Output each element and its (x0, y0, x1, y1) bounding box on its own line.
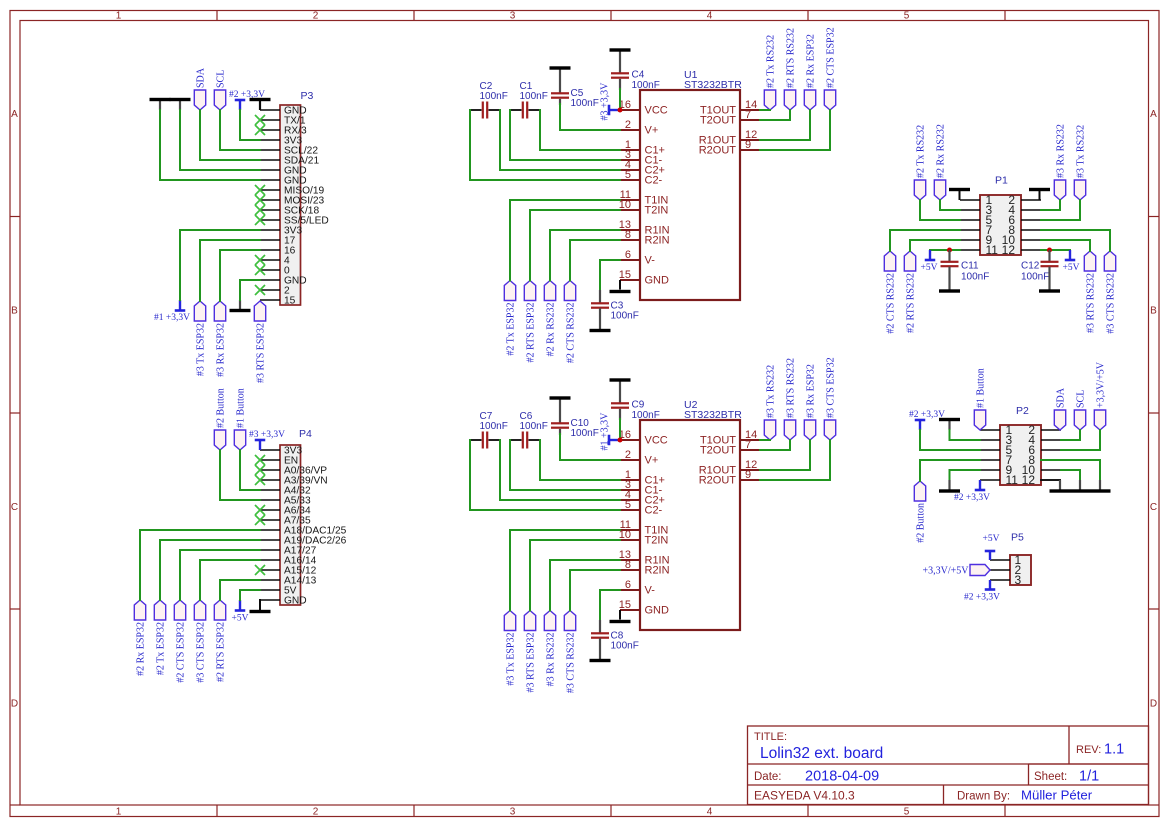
wire P3 pin8 GND (160, 110, 260, 180)
capacitor C8 100nF (591, 620, 639, 652)
svg-text:Sheet:: Sheet: (1034, 771, 1067, 783)
svg-text:12: 12 (1002, 243, 1016, 257)
svg-text:R2OUT: R2OUT (699, 475, 737, 487)
ground symbol at P3 pin 1 (250, 98, 271, 110)
svg-text:100nF: 100nF (571, 98, 599, 109)
P2 pin 2 (1028, 423, 1061, 437)
U2 pin 14 T1OUT (700, 429, 760, 447)
svg-text:V-: V- (645, 255, 656, 267)
svg-text:15: 15 (284, 296, 296, 307)
svg-text:5: 5 (904, 807, 910, 818)
svg-text:P4: P4 (299, 428, 312, 440)
P5 pin 2 (990, 563, 1022, 577)
svg-text:9: 9 (745, 139, 751, 151)
net port SDA at P2 (1054, 387, 1066, 430)
svg-text:#2 Tx RS232: #2 Tx RS232 (915, 125, 926, 178)
svg-text:#1 Button: #1 Button (975, 368, 986, 408)
P3 pin 12 SS/5/LED (260, 216, 329, 227)
ground symbol below C11 (939, 267, 960, 293)
P3 pin 12 no-connect X (255, 215, 265, 225)
wire #2 CTS ESP32 to U1 (760, 110, 830, 150)
net port #2 Rx ESP32 at P4 (134, 600, 146, 676)
U1 pin 11 T1IN (620, 189, 669, 207)
P3 pin 18 GND (260, 276, 307, 287)
P4 pin 8 no-connect X (255, 515, 265, 525)
svg-text:GND: GND (645, 605, 670, 617)
net port #2 Tx ESP32 at P4 (154, 600, 166, 675)
wire #3 CTS RS232 to U2 (570, 570, 620, 611)
svg-text:#3 Rx RS232: #3 Rx RS232 (545, 633, 556, 687)
svg-text:#1 Button: #1 Button (235, 388, 246, 428)
P2 pin 1 (980, 423, 1013, 437)
svg-text:8: 8 (625, 559, 631, 571)
wire #1 Button to P4 pin5 A4/32 (240, 450, 260, 490)
U2 pin 1 C1+ (620, 469, 665, 487)
U1 pin 4 C2+ (620, 159, 665, 177)
U1 pin 15 GND (619, 269, 669, 287)
frame row labels (11, 109, 1157, 710)
wire #2 Tx ESP32 to P4 (160, 540, 260, 600)
svg-text:7: 7 (745, 109, 751, 121)
svg-text:#3 Tx ESP32: #3 Tx ESP32 (195, 323, 206, 376)
svg-text:V-: V- (645, 585, 656, 597)
net port #3 RTS ESP32 at P3 (254, 301, 266, 383)
svg-text:2: 2 (313, 807, 319, 818)
svg-text:3: 3 (510, 11, 516, 22)
U2 pin 10 T2IN (619, 529, 669, 547)
P4 pin 13 A15/12 (260, 566, 317, 577)
ground symbol at P3 pin 18 (230, 300, 251, 312)
ground symbol at P1 pin 1 (949, 188, 970, 200)
P1 pin 12 (1002, 243, 1041, 257)
svg-text:100nF: 100nF (480, 91, 508, 102)
svg-text:P2: P2 (1016, 405, 1029, 417)
svg-text:15: 15 (619, 599, 631, 611)
svg-text:#3 Rx ESP32: #3 Rx ESP32 (805, 364, 816, 418)
U2 pin 15 GND (619, 599, 669, 617)
P4 pin 5 A4/32 (260, 486, 311, 497)
wire P3 pin18 GND (240, 280, 260, 300)
connector P3 (280, 105, 301, 305)
net port #2 CTS ESP32 at U1 (824, 27, 836, 110)
U1 pin 12 R1OUT (699, 129, 760, 147)
capacitor C12 100nF (1021, 250, 1059, 283)
P2 pin 12 (1022, 473, 1061, 487)
P1 pin 10 (1002, 233, 1041, 247)
P3 pin 7 GND (260, 166, 307, 177)
svg-text:#3 CTS ESP32: #3 CTS ESP32 (195, 622, 206, 683)
wire #2 Rx RS232 to U1 (550, 230, 620, 281)
power flag +5V at P5 pin 1 (983, 534, 1000, 560)
svg-text:SDA: SDA (195, 67, 206, 88)
P4 pin 13 no-connect X (255, 565, 265, 575)
svg-text:#3 CTS RS232: #3 CTS RS232 (1105, 273, 1116, 334)
ground symbol above C10 (550, 396, 571, 423)
svg-text:#3 Tx ESP32: #3 Tx ESP32 (505, 633, 516, 686)
wire SCL to P3 pin5 (220, 110, 260, 150)
wire #3 CTS ESP32 to U2 (760, 440, 830, 480)
svg-text:D: D (1150, 699, 1157, 710)
U2 pin 6 V- (620, 579, 655, 597)
svg-text:P5: P5 (1011, 532, 1024, 544)
net port #2 CTS ESP32 at P4 (174, 600, 186, 683)
title block (748, 726, 1149, 805)
svg-text:VCC: VCC (645, 435, 668, 447)
U2 pin 16 VCC (619, 429, 668, 447)
P3 pin 10 MOSI/23 (260, 196, 325, 207)
svg-text:#2 RTS ESP32: #2 RTS ESP32 (215, 622, 226, 682)
title block text Lolin32 ext. board (760, 745, 883, 762)
P5 pin 3 (990, 573, 1022, 587)
wire #2 Tx RS232 to U1 (760, 109, 770, 111)
wire C4 to VCC pin (619, 79, 621, 110)
wire #3 Tx ESP32 to P3 pin14 (200, 240, 260, 301)
net port SCL at P3 (214, 70, 226, 110)
svg-text:#3 Rx ESP32: #3 Rx ESP32 (215, 323, 226, 377)
ground symbol above C9 (610, 378, 631, 403)
P3 pin 19 no-connect X (255, 285, 265, 295)
svg-text:5: 5 (625, 499, 631, 511)
net port #3 RTS RS232 at P1 (1084, 251, 1096, 333)
wire +3,3V/+5V to P2 pin 6 (1061, 430, 1100, 450)
svg-text:+3,3V/+5V: +3,3V/+5V (922, 566, 969, 577)
P1 pin 11 (960, 243, 998, 257)
op-amp U1 ST3232BTR box (640, 90, 740, 300)
P4 pin 7 A6/34 (260, 506, 311, 517)
P1 pin 2 (1008, 193, 1041, 207)
op-amp U2 ST3232BTR box (640, 420, 740, 630)
P3 pin 9 no-connect X (255, 185, 265, 195)
U1 pin 13 R1IN (619, 219, 670, 237)
svg-text:7: 7 (745, 439, 751, 451)
svg-text:+5V: +5V (1063, 263, 1080, 273)
junction at U2 VCC (618, 438, 623, 443)
capacitor C2 100nF (470, 81, 508, 119)
P1 pin 6 (1008, 213, 1041, 227)
P3 pin 19 2 (260, 286, 290, 297)
svg-text:#3 CTS RS232: #3 CTS RS232 (565, 633, 576, 694)
svg-text:#2 RTS RS232: #2 RTS RS232 (905, 273, 916, 333)
svg-text:100nF: 100nF (632, 80, 660, 91)
svg-text:#3 +3,3V: #3 +3,3V (249, 430, 285, 440)
P4 pin 14 A14/13 (260, 576, 317, 587)
svg-text:100nF: 100nF (961, 272, 989, 283)
P3 pin 17 0 (260, 266, 290, 277)
P4 pin 15 5V (260, 586, 297, 597)
P4 pin 4 A3/39/VN (260, 476, 328, 487)
P3 pin 16 4 (260, 256, 290, 267)
title block text TITLE: (754, 731, 787, 743)
net port #2 RTS RS232 at P1 (904, 251, 916, 333)
svg-text:15: 15 (619, 269, 631, 281)
wire +5V to P4 pin15 (240, 590, 260, 600)
svg-text:#3 Tx RS232: #3 Tx RS232 (1075, 125, 1086, 178)
wire P1 pin 12 +5V rail (1041, 249, 1070, 251)
wire C1 right to C1+ pin (540, 110, 620, 150)
svg-text:+5V: +5V (983, 534, 1000, 544)
P4 pin 4 no-connect X (255, 475, 265, 485)
svg-text:1.1: 1.1 (1104, 742, 1124, 758)
P3 pin 20 15 (260, 296, 296, 307)
svg-text:D: D (11, 699, 18, 710)
svg-text:R2IN: R2IN (645, 235, 670, 247)
P2 pin 3 (980, 433, 1013, 447)
power flag +5V at P1 pin 11 (921, 250, 938, 273)
power flag #2 +3,3V at P2 top (909, 410, 945, 430)
P5 pin 1 (990, 553, 1022, 567)
power flag #3 +3,3V at U1 VCC (600, 82, 621, 121)
wire #3 Tx RS232 to U2 (760, 439, 770, 441)
U2 pin 13 R1IN (619, 549, 670, 567)
U2 pin 3 C1- (620, 479, 663, 497)
svg-text:#2 CTS ESP32: #2 CTS ESP32 (825, 27, 836, 88)
svg-text:5: 5 (625, 169, 631, 181)
P3 pin 6 SDA/21 (260, 156, 319, 167)
svg-text:#3 RTS ESP32: #3 RTS ESP32 (255, 323, 266, 383)
connector P4 (280, 445, 301, 605)
P3 pin 3 RX/3 (260, 126, 307, 137)
title block text Sheet: 1/1 (1034, 769, 1099, 785)
wire #3 Tx ESP32 to U2 (510, 530, 620, 611)
svg-text:2: 2 (625, 119, 631, 131)
net port #3 Tx RS232 at U2 (764, 365, 776, 440)
wire C2 right to C2+ pin (500, 110, 620, 170)
wire P2 pin 12 GND (1041, 479, 1060, 481)
P3 pin 13 3V3 (260, 226, 302, 237)
P4 pin 12 A16/14 (260, 556, 317, 567)
U2 pin 12 R1OUT (699, 459, 760, 477)
connector P2 (1000, 425, 1041, 485)
svg-text:#2 +3,3V: #2 +3,3V (954, 493, 990, 503)
svg-text:1: 1 (116, 11, 122, 22)
wire #2 Rx ESP32 to U1 (760, 110, 810, 140)
svg-text:2: 2 (313, 11, 319, 22)
U2 refdes label (684, 399, 698, 411)
svg-text:C2-: C2- (645, 175, 663, 187)
svg-text:1/1: 1/1 (1079, 769, 1099, 785)
U1 pin 7 T2OUT (700, 109, 760, 127)
wire #2 RTS RS232 to U1 (760, 110, 790, 120)
junction at C12 (1047, 248, 1052, 253)
net port #2 Rx ESP32 at U1 (804, 34, 816, 110)
svg-text:ST3232BTR: ST3232BTR (684, 79, 742, 91)
U1 pin 16 VCC (619, 99, 668, 117)
capacitor C4 100nF (611, 70, 660, 92)
U1 pin 10 T2IN (619, 199, 669, 217)
P3 pin 14 17 (260, 236, 296, 247)
net port #2 Tx RS232 at U1 (764, 35, 776, 110)
P1 pin 7 (960, 223, 993, 237)
svg-text:Date:: Date: (754, 771, 782, 783)
wire #3 Rx RS232 to P1 pin 4 (1041, 200, 1060, 210)
svg-text:#2 +3,3V: #2 +3,3V (964, 593, 1000, 603)
svg-text:Lolin32 ext. board: Lolin32 ext. board (760, 745, 883, 762)
svg-text:100nF: 100nF (611, 311, 639, 322)
svg-text:100nF: 100nF (520, 91, 548, 102)
net port #2 CTS RS232 at U1 (564, 281, 576, 364)
svg-text:100nF: 100nF (571, 428, 599, 439)
net port #2 RTS ESP32 at U1 (524, 281, 536, 363)
title block text Date: 2018-04-09 (754, 769, 879, 785)
svg-text:TITLE:: TITLE: (754, 731, 787, 743)
svg-text:#2 Rx ESP32: #2 Rx ESP32 (135, 622, 146, 676)
svg-text:T2IN: T2IN (645, 205, 669, 217)
wire #2 RTS RS232 to P1 pin 9 (910, 240, 960, 251)
svg-text:B: B (1150, 306, 1157, 317)
svg-text:C4: C4 (632, 70, 645, 81)
wire #2 Tx RS232 to P1 pin 5 (920, 200, 960, 220)
svg-text:VCC: VCC (645, 105, 668, 117)
capacitor C6 100nF (510, 411, 548, 449)
svg-text:11: 11 (1006, 473, 1019, 487)
net port SCL at P2 (1074, 390, 1086, 430)
wire #2 +3,3V to P3 pin4 3V3 (240, 110, 260, 140)
svg-text:EASYEDA V4.10.3: EASYEDA V4.10.3 (754, 789, 855, 803)
P4 pin 11 A17/27 (260, 546, 317, 557)
svg-text:#3 Rx RS232: #3 Rx RS232 (1055, 124, 1066, 178)
P4 pin 10 A19/DAC2/26 (260, 536, 347, 547)
U1 pin 8 R2IN (620, 229, 670, 247)
net port #3 RTS ESP32 at U2 (524, 611, 536, 693)
svg-text:A: A (11, 109, 18, 120)
svg-text:V+: V+ (645, 455, 659, 467)
power flag #1 +3,3V at U2 VCC (600, 412, 621, 451)
svg-text:4: 4 (707, 11, 713, 22)
net port #2 Tx ESP32 at U1 (504, 281, 516, 356)
svg-text:#2 CTS RS232: #2 CTS RS232 (565, 303, 576, 364)
wire C10 to V+ pin (560, 429, 620, 460)
wire SDA to P3 pin6 (200, 110, 260, 160)
wire C5 to V+ pin (560, 99, 620, 130)
svg-text:6: 6 (625, 249, 631, 261)
U2 part number ST3232BTR (684, 409, 742, 421)
svg-text:#2 RTS RS232: #2 RTS RS232 (785, 28, 796, 88)
net port #2 Button at P4 (214, 388, 226, 450)
connector P1 (980, 195, 1021, 255)
svg-text:4: 4 (707, 807, 713, 818)
ground symbol at U2 GND pin (610, 610, 631, 623)
net port #3 CTS RS232 at U2 (564, 611, 576, 694)
wire V- pin to C8 (600, 590, 620, 621)
net port +3,3V/+5V at P2 (1094, 361, 1106, 430)
junction at U1 VCC (618, 108, 623, 113)
power flag #2 +3,3V at P3 top (229, 90, 265, 110)
net port #2 Rx RS232 at P1 (934, 124, 946, 200)
U2 pin 11 T1IN (620, 519, 669, 537)
P4 pin 8 A7/35 (260, 516, 311, 527)
net port +3,3V/+5V at P5 pin 2 (922, 565, 990, 577)
wire #2 CTS RS232 to P1 pin 7 (890, 230, 960, 251)
ground symbol below C8 (590, 638, 611, 662)
wire #3 Rx ESP32 to U2 (760, 440, 810, 470)
U2 pin 2 V+ (620, 449, 658, 467)
svg-text:V+: V+ (645, 125, 659, 137)
wire #3 RTS RS232 to U2 (760, 440, 790, 450)
P4 pin 16 GND (260, 596, 307, 607)
connector P1 refdes label (995, 175, 1008, 187)
svg-text:100nF: 100nF (520, 421, 548, 432)
power flag #2 +3,3V at P2 pin 11 (954, 480, 990, 503)
wire C9 to VCC pin (619, 409, 621, 440)
svg-text:3: 3 (1015, 573, 1022, 587)
U2 pin 7 T2OUT (700, 439, 760, 457)
svg-text:#2 Tx ESP32: #2 Tx ESP32 (505, 303, 516, 356)
net port #3 Tx ESP32 at U2 (504, 611, 516, 686)
P3 pin 9 MISO/19 (260, 186, 325, 197)
svg-text:R2IN: R2IN (645, 565, 670, 577)
wire #2 Tx ESP32 to U1 (510, 200, 620, 281)
net port #3 CTS RS232 at P1 (1104, 251, 1116, 334)
P4 pin 3 no-connect X (255, 465, 265, 475)
U1 refdes label (684, 69, 698, 81)
wire P1 pin 11 +5V rail (930, 249, 960, 251)
power flag +5V at P1 pin 12 (1063, 250, 1080, 273)
svg-text:100nF: 100nF (480, 421, 508, 432)
svg-text:B: B (11, 306, 18, 317)
svg-text:T2IN: T2IN (645, 535, 669, 547)
wire #2 Rx ESP32 to P4 (140, 530, 260, 600)
P3 pin 17 no-connect X (255, 265, 265, 275)
P2 pin 8 (1028, 453, 1061, 467)
U1 pin 3 C1- (620, 149, 663, 167)
svg-text:1: 1 (116, 807, 122, 818)
frame column labels (116, 11, 910, 818)
connector P3 refdes label (301, 90, 314, 102)
svg-text:+3,3V/+5V: +3,3V/+5V (1095, 361, 1106, 408)
net port #2 Tx RS232 at P1 (914, 125, 926, 200)
net port #3 Rx ESP32 at P3 (214, 301, 226, 377)
P3 pin 2 TX/1 (260, 116, 306, 127)
ground symbol at P1 pin 2 (1029, 188, 1050, 200)
net port #2 Button at P2 (914, 481, 926, 543)
wire #3 Rx ESP32 to P3 pin15 (220, 250, 260, 301)
P1 pin 3 (960, 203, 993, 217)
svg-text:#2 Rx RS232: #2 Rx RS232 (935, 124, 946, 178)
wire #2 CTS ESP32 to P4 (180, 550, 260, 600)
net port #2 RTS RS232 at U1 (784, 28, 796, 110)
svg-text:#2 CTS ESP32: #2 CTS ESP32 (175, 622, 186, 683)
svg-text:C9: C9 (632, 400, 645, 411)
power flag #2 +3,3V at P5 pin 3 (964, 580, 1000, 603)
capacitor C9 100nF (611, 400, 660, 422)
wire #2 RTS ESP32 to U1 (530, 210, 620, 281)
P4 pin 3 A0/36/VP (260, 466, 327, 477)
P3 pin 8 GND (260, 176, 307, 187)
wire #3 RTS ESP32 to U2 (530, 540, 620, 611)
U2 pin 8 R2IN (620, 559, 670, 577)
P2 pin 7 (980, 453, 1013, 467)
svg-text:GND: GND (284, 596, 307, 607)
wire P2 pin 9 GND (950, 470, 981, 480)
title block text EASYEDA V4.10.3 (754, 789, 855, 803)
capacitor C11 100nF (941, 250, 990, 283)
net port #2 CTS RS232 at P1 (884, 251, 896, 334)
ground symbol at P3 (net to pin 8 GND) (150, 98, 171, 110)
svg-text:#2 CTS RS232: #2 CTS RS232 (885, 273, 896, 334)
P2 pin 5 (980, 443, 1013, 457)
net port #3 CTS ESP32 at P4 (194, 600, 206, 683)
svg-text:REV:: REV: (1076, 744, 1101, 756)
U1 pin 9 R2OUT (699, 139, 760, 157)
svg-text:SCL: SCL (1075, 390, 1086, 408)
svg-text:SDA: SDA (1055, 387, 1066, 408)
wire SCL to P2 pin 4 (1061, 430, 1080, 440)
P2 pin 6 (1028, 443, 1061, 457)
wire C2 left to C2- pin (470, 110, 620, 180)
power flag #3 +3,3V at P4 pin1 3V3 (249, 430, 285, 450)
junction at C11 (947, 248, 952, 253)
ground symbol at U1 GND pin (610, 280, 631, 293)
